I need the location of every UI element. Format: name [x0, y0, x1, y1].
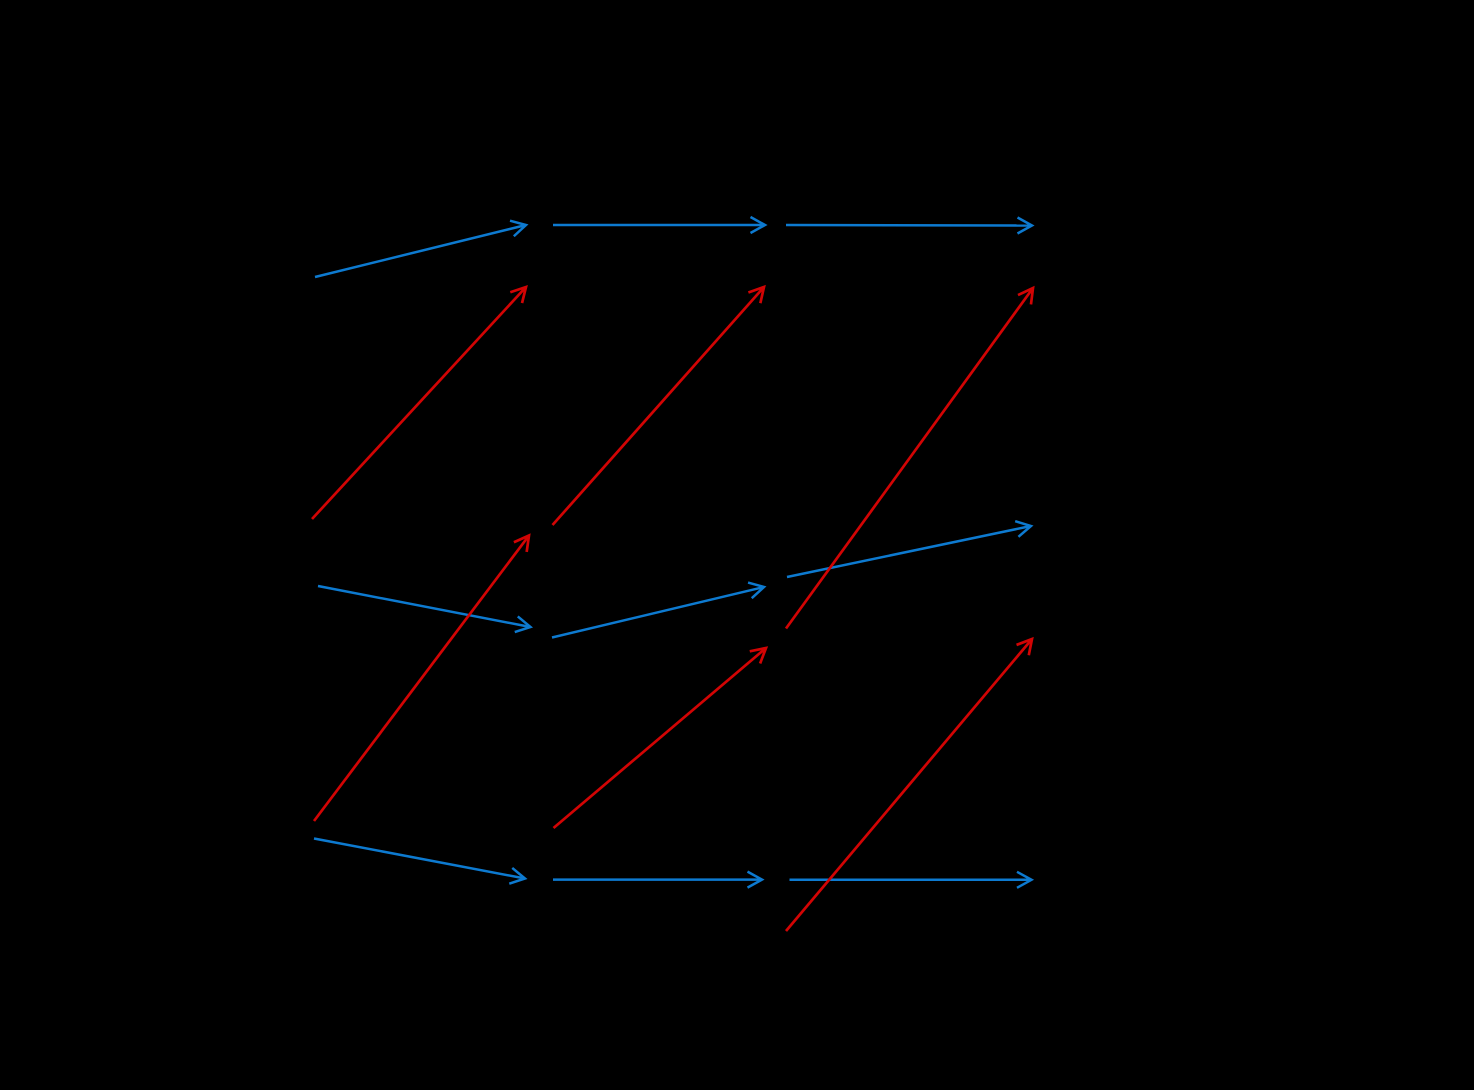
wire red edge R2 (level1 mid -> level2 top) [553, 287, 765, 525]
wire blue edge B5 (level1 mid -> level2 mid) [552, 587, 764, 638]
wire blue edge B8 (level1 bottom -> level2 bottom) [553, 878, 762, 881]
wire blue edge B6 (level2 mid -> level3 upper-mid) [787, 526, 1031, 577]
wire red edge R3 (level2 mid -> level3 top) [786, 288, 1033, 629]
wire red edge R4 (level0 bottom -> level1 mid) [314, 536, 529, 822]
wire red edge R6 (level2 lower-bottom -> level3 lower-mid) [786, 639, 1032, 931]
wire blue edge B4 (level0 mid -> level1 mid) [318, 586, 531, 627]
wire blue edge B3 (level2 top -> level3 top) [786, 224, 1032, 227]
wire red edge R1 (level0 mid -> level1 top) [312, 287, 526, 519]
wire blue edge B2 (level1 top -> level2 top) [553, 224, 765, 227]
wire red edge R5 (level1 bottom -> level2 mid) [554, 648, 767, 828]
wire blue edge B1 (level0 top -> level1 top) [315, 225, 526, 277]
wire blue edge B9 (level2 bottom -> level3 bottom) [790, 879, 1032, 882]
wire blue edge B7 (level0 bottom -> level1 bottom) [314, 839, 525, 879]
